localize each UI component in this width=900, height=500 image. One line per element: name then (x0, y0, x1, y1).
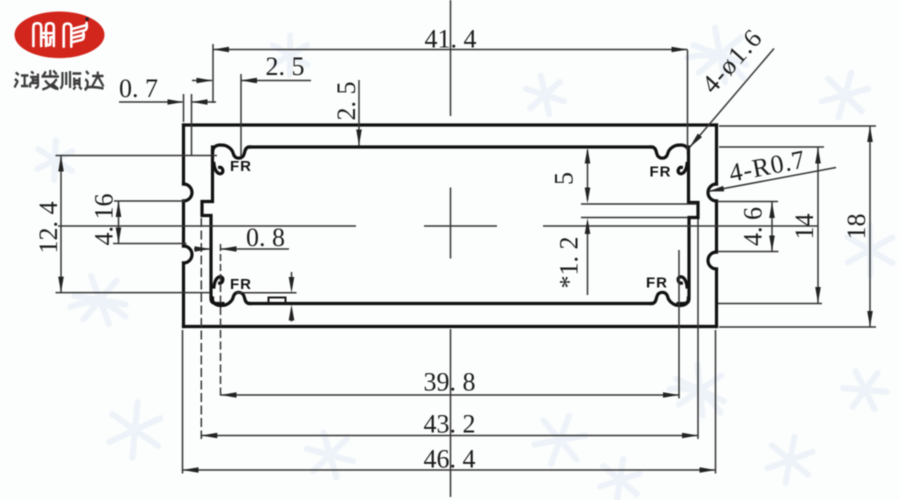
notch R0.7 left upper (184, 184, 193, 201)
dim 12.4 ext bottom (boss center line) (56, 292, 297, 294)
svg-text:*1. 2: *1. 2 (555, 237, 584, 289)
svg-text:FR: FR (230, 276, 252, 293)
svg-text:46. 4: 46. 4 (424, 445, 476, 474)
arrow 14 top (815, 148, 821, 164)
arrow 1 up (289, 305, 295, 321)
dim 46.4 ext left (182, 330, 184, 474)
center cross vertical (450, 188, 452, 259)
screw boss TL hump and slit valley (212, 145, 250, 158)
dim 39.8 ext right (678, 250, 680, 399)
arrow 1 down (289, 277, 295, 293)
logo letter F tubes (64, 24, 72, 47)
svg-text:14: 14 (790, 214, 819, 240)
svg-text:2. 5: 2. 5 (266, 52, 305, 81)
arrow 43.2 right (682, 433, 698, 439)
notch R0.7 left lower (184, 246, 193, 263)
inner left wall with slot notch (202, 147, 223, 304)
inner right wall with slot notch (678, 147, 698, 304)
dim 2.5 horizontal line segments (192, 80, 311, 82)
svg-text:18: 18 (842, 214, 871, 240)
inner cavity floor line (249, 302, 652, 305)
svg-text:FR: FR (650, 164, 672, 181)
screw boss TR hump and slit valley (651, 145, 689, 158)
screw boss TR lower curl (678, 164, 687, 174)
dim 2.5 ext (boss center) (240, 74, 242, 157)
dim 2.5 vertical line (358, 80, 360, 146)
dim 46.4 ext right (715, 330, 717, 474)
dim 18 ext lines (719, 126, 876, 327)
outer top wall (184, 123, 717, 126)
inner cavity top line (249, 145, 652, 148)
dim 43.2 ext left (200, 218, 202, 439)
arrow 41.4 left (213, 47, 229, 53)
arrow 12.4 top (58, 156, 64, 172)
dim 4.6 line (771, 202, 773, 252)
dim 1 arrow shafts (291, 272, 293, 322)
arrow 2.5h left (197, 78, 213, 84)
svg-text:2. 5: 2. 5 (332, 82, 361, 121)
arrow 2.5v bottom (356, 130, 362, 146)
svg-text:4-R0.7: 4-R0.7 (727, 145, 809, 188)
dim 12.4 ext top (boss center line) (56, 155, 218, 157)
达 (85, 71, 104, 90)
arrow 1.2 up (585, 218, 591, 234)
dim 46.4 line (183, 469, 716, 471)
pcb slot line upper (581, 203, 697, 205)
arrow 4.6 bottom (769, 236, 775, 252)
dim 4.6 ext lines (717, 202, 779, 252)
dim 0.7 line segments (119, 101, 216, 103)
leader 4-R0.7 (708, 168, 836, 192)
dim 14 line (817, 148, 819, 304)
screw boss BL upper curl (214, 277, 223, 287)
svg-text:0. 7: 0. 7 (119, 74, 158, 103)
vertical centerline top segment (450, 0, 452, 116)
arrow 5 up (585, 148, 591, 164)
screw boss BR hump and slit valley (651, 292, 689, 305)
screw boss BR upper curl (678, 277, 687, 287)
svg-text:0. 8: 0. 8 (246, 223, 285, 252)
arrow 12.4 bottom (58, 277, 64, 293)
dim 0.8 ext line (220, 244, 222, 282)
logo letter H tubes (33, 23, 41, 46)
dim 1.2 arrow shaft (587, 224, 589, 295)
arrow 43.2 left (201, 433, 217, 439)
arrow 4.16 top (116, 201, 122, 217)
发 (41, 70, 58, 90)
svg-text:12. 4: 12. 4 (34, 202, 63, 254)
arrow 39.8 left (221, 392, 237, 398)
svg-text:39. 8: 39. 8 (424, 368, 476, 397)
screw boss BL hump and slit valley (212, 292, 250, 305)
arrow 14 bottom (815, 287, 821, 303)
鸿 (14, 73, 18, 88)
arrow 0.8 right (221, 246, 237, 252)
svg-text:4-ø1.6: 4-ø1.6 (696, 23, 769, 99)
pcb slot line lower (581, 217, 689, 219)
logo tm dot (86, 18, 89, 21)
arrow 41.4 right (672, 47, 688, 53)
arrow 18 top (867, 126, 873, 142)
svg-text:FR: FR (230, 158, 252, 175)
arrow 5 down (585, 188, 591, 204)
logo chinese 鸿发顺达 (drawn strokes) (14, 70, 103, 90)
outer right wall segments (715, 125, 718, 327)
dim 0.7 ext lines (184, 94, 192, 156)
dim 39.8 line (221, 394, 680, 396)
arrow 0.7 right (192, 99, 208, 105)
center cross horizontal (424, 225, 497, 227)
svg-text:4. 6: 4. 6 (739, 207, 768, 246)
dim 39.8 ext left (220, 284, 222, 399)
arrow 46.4 left (183, 467, 199, 473)
leader 4-phi1.6 (690, 49, 775, 148)
outer left wall segments (182, 125, 185, 327)
dim 43.2 line (201, 435, 698, 437)
dim 4.16 line (118, 201, 120, 244)
dim 41.4 ext left (212, 44, 214, 103)
screw boss TL lower curl (214, 164, 223, 174)
arrow 4.16 bottom (116, 228, 122, 244)
notch R0.7 right lower (708, 252, 717, 269)
dim 14 ext lines (718, 147, 824, 304)
arrow leader phi1.6 (690, 134, 703, 148)
dim 41.4 ext right (687, 50, 689, 150)
dim 12.4 line (60, 156, 62, 293)
dim 41.4 line (213, 49, 688, 51)
顺 (60, 71, 70, 89)
notch R0.7 right upper (708, 184, 717, 201)
arrow 46.4 right (700, 467, 716, 473)
dim 4.16 ext lines (113, 201, 187, 244)
dim 18 line (869, 126, 871, 328)
arrow 2.5h right (241, 78, 257, 84)
dim 5 line (587, 150, 589, 200)
svg-text:43. 2: 43. 2 (424, 410, 476, 439)
svg-text:41. 4: 41. 4 (425, 25, 477, 54)
dim 43.2 ext right (697, 219, 699, 439)
svg-text:5: 5 (550, 172, 579, 185)
horizontal centerline right segment (543, 225, 818, 227)
svg-text:FR: FR (646, 275, 668, 292)
logo HF ellipse (15, 12, 105, 59)
arrow 0.8 left (195, 246, 211, 252)
floor rib (269, 298, 286, 304)
svg-text:4. 16: 4. 16 (90, 194, 119, 246)
vertical centerline bottom segment (450, 329, 452, 497)
arrow 18 bottom (867, 311, 873, 327)
arrow 0.7 left (168, 99, 184, 105)
profile outer walls (184, 125, 717, 327)
dim 0.8 line segments (194, 248, 289, 250)
arrow 39.8 right (663, 392, 679, 398)
horizontal centerline left segment (58, 225, 356, 227)
arrow leader R0.7 (708, 186, 724, 192)
arrow 4.6 top (769, 202, 775, 218)
outer bottom wall (184, 325, 717, 328)
